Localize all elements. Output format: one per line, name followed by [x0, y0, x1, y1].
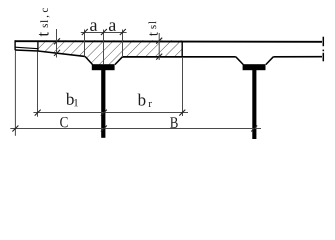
- label t_sl (rotated): [148, 21, 157, 36]
- dimension t_sl: dimension line: [158, 33, 160, 60]
- right girder web: [252, 70, 256, 139]
- dimension a-a: dimension line: [81, 32, 127, 34]
- dimension a-a: tick right: [120, 29, 126, 35]
- dimension t_sl,c: tick bottom: [54, 50, 60, 56]
- slab underside: tip to hatch start: [15, 50, 38, 51]
- symmetry axis at right end: upper dash: [322, 37, 324, 47]
- slab underside right of right girder: [273, 56, 322, 58]
- dimension a-a: extension line left: [84, 30, 86, 57]
- left haunch right slant: [115, 57, 123, 65]
- dimension b1/br: dimension line: [33, 112, 188, 114]
- dimension b1/br: extension line right: [182, 57, 184, 116]
- dimension b1/br: tick right: [179, 110, 185, 116]
- dimension a-a: extension line centerline of girder: [103, 30, 105, 65]
- label br: [138, 94, 152, 107]
- dimension a-a: tick middle: [101, 29, 107, 35]
- dimension b1/br: tick left: [35, 110, 41, 116]
- label C: [60, 117, 68, 127]
- dimension C/B: extension line left: [14, 51, 16, 136]
- left girder top flange: [92, 64, 115, 70]
- right haunch left slant: [236, 57, 244, 65]
- left girder web: [101, 70, 105, 138]
- dimension b1/br: tick middle on web: [101, 110, 107, 116]
- slab tip block right edge: [37, 41, 39, 52]
- slab top edge: [15, 40, 322, 43]
- hatched effective-width slab region: [38, 40, 182, 64]
- label t_sl,c (rotated): [39, 8, 50, 36]
- dimension t_sl,c: dimension line: [56, 29, 58, 58]
- slab underside between girders: [122, 56, 235, 58]
- hatch zone right boundary: [181, 41, 183, 57]
- dimension a-a: tick left: [82, 29, 88, 35]
- slab left tip edge (vertical): [14, 40, 16, 50]
- dimension t_sl: tick top: [156, 38, 162, 44]
- dimension C/B: tick right on right web: [251, 126, 257, 132]
- dimension C/B: tick middle on left web: [101, 126, 107, 132]
- symmetry axis dot: [322, 50, 324, 52]
- right haunch right slant: [266, 57, 274, 65]
- label b1: [66, 93, 78, 107]
- right girder top flange: [243, 64, 266, 70]
- label B: [170, 117, 178, 128]
- slab underside: hatch start to left haunch break: [38, 51, 85, 56]
- dimension C/B: dimension line: [10, 128, 261, 130]
- dimension C/B: tick left: [12, 126, 18, 132]
- dimension a-a: extension line right: [122, 30, 124, 58]
- label a (left): [90, 22, 97, 31]
- dimension b1/br: extension line left: [37, 52, 39, 117]
- left haunch left slant: [85, 56, 93, 64]
- dimension t_sl: tick bottom: [156, 54, 162, 60]
- dimension t_sl,c: tick top: [54, 38, 60, 44]
- label a (right): [109, 22, 116, 31]
- slab tip block inner bottom line: [15, 47, 38, 49]
- symmetry axis lower dash: [322, 53, 324, 62]
